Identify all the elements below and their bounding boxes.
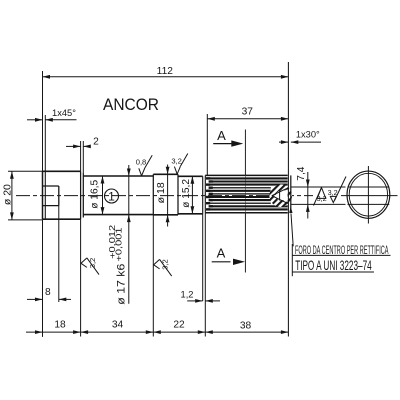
svg-text:1: 1 <box>108 189 115 203</box>
chamfer line 1x45 <box>44 171 46 219</box>
centre hole hatched section <box>269 184 292 207</box>
svg-text:+0,001: +0,001 <box>113 227 123 261</box>
svg-text:ø 18: ø 18 <box>155 182 167 203</box>
note box left edge <box>291 244 293 276</box>
svg-text:ø 15,2: ø 15,2 <box>181 179 192 208</box>
svg-text:3,2: 3,2 <box>171 157 182 166</box>
svg-text:ø 17 k6: ø 17 k6 <box>116 264 128 305</box>
section line A-A <box>244 130 246 176</box>
dimension 1x30deg <box>279 141 288 143</box>
dimension 8 slot <box>58 206 60 302</box>
dimension d20 <box>8 170 43 172</box>
svg-text:7,4: 7,4 <box>296 166 307 180</box>
extension lines chain <box>42 219 44 337</box>
dimension 37 <box>206 114 208 175</box>
svg-text:ø 16,5: ø 16,5 <box>90 180 101 209</box>
svg-text:34: 34 <box>112 320 124 331</box>
dimension 1.2 undercut <box>202 214 204 301</box>
svg-text:0,8: 0,8 <box>136 157 147 166</box>
roughness 3.2 symbol a <box>317 188 326 199</box>
svg-text:38: 38 <box>240 321 252 332</box>
shaft section d17 outline <box>83 175 153 177</box>
svg-text:1x45°: 1x45° <box>52 108 76 118</box>
centre hole cone white wedge <box>274 189 288 202</box>
undercut 1.2mm double line <box>202 176 204 214</box>
dimension d18 <box>167 165 169 227</box>
shaft section d20 outline <box>42 171 44 219</box>
section line A-A inner trace <box>244 175 246 212</box>
svg-text:2: 2 <box>93 137 99 148</box>
dimension 7.4 centre hole <box>291 186 346 188</box>
roughness 3.2 rotated on ext line x80.6 <box>81 258 87 263</box>
spline teeth lines <box>207 177 288 179</box>
spline section top edge <box>205 174 287 176</box>
dimension 112 <box>42 71 44 171</box>
section A-A view inner circle <box>349 173 387 216</box>
roughness 3.2 rotated on ext line x153.3 <box>154 259 160 264</box>
svg-text:3,2: 3,2 <box>317 194 327 203</box>
svg-text:18: 18 <box>54 320 66 331</box>
centre hole cone outline <box>272 188 288 196</box>
shaft section d15.2 outline <box>178 175 203 177</box>
chain dimension line 18 34 22 38 <box>26 331 288 333</box>
svg-text:22: 22 <box>173 320 185 331</box>
roughness 3.2 on d15.2 <box>174 167 177 175</box>
slot in left face <box>43 185 59 187</box>
svg-text:3,2: 3,2 <box>88 258 97 269</box>
svg-text:ANCOR: ANCOR <box>103 95 159 114</box>
dimension d17 k6 <box>128 165 130 304</box>
shaft section d18 outline <box>153 173 178 175</box>
centre hole pilot step <box>279 191 281 201</box>
dimension 1x45deg <box>44 115 46 171</box>
dimension d15.2 <box>191 176 193 214</box>
section A-A chords <box>348 186 390 188</box>
svg-text:8: 8 <box>45 287 51 298</box>
groove 2mm walls <box>80 171 82 219</box>
right face chamfer line 1x30 <box>290 175 292 212</box>
svg-text:TIPO A UNI 3223–74: TIPO A UNI 3223–74 <box>295 257 372 273</box>
spline lead-in chamfer blobs <box>206 177 210 179</box>
svg-text:112: 112 <box>157 66 174 77</box>
svg-text:3,2: 3,2 <box>328 188 338 197</box>
svg-text:1,2: 1,2 <box>181 289 194 299</box>
centerline shaft axis <box>16 195 313 197</box>
svg-text:1x30°: 1x30° <box>296 130 320 140</box>
dimension d16.5 <box>102 176 104 215</box>
section A-A view outer circle <box>347 171 390 218</box>
section A-A centerlines <box>341 195 398 197</box>
svg-text:A: A <box>217 245 226 260</box>
svg-text:ø 20: ø 20 <box>2 184 14 205</box>
svg-text:3,2: 3,2 <box>161 259 170 270</box>
balloon 1 circle <box>105 189 119 203</box>
svg-text:A: A <box>217 128 226 143</box>
leader to note <box>291 214 293 247</box>
spline section bottom edge <box>205 212 287 214</box>
roughness 0.8 on d17 <box>139 168 142 176</box>
svg-text:37: 37 <box>242 107 254 118</box>
dimension 2 groove <box>80 141 82 171</box>
right face line / extension line <box>287 62 289 337</box>
